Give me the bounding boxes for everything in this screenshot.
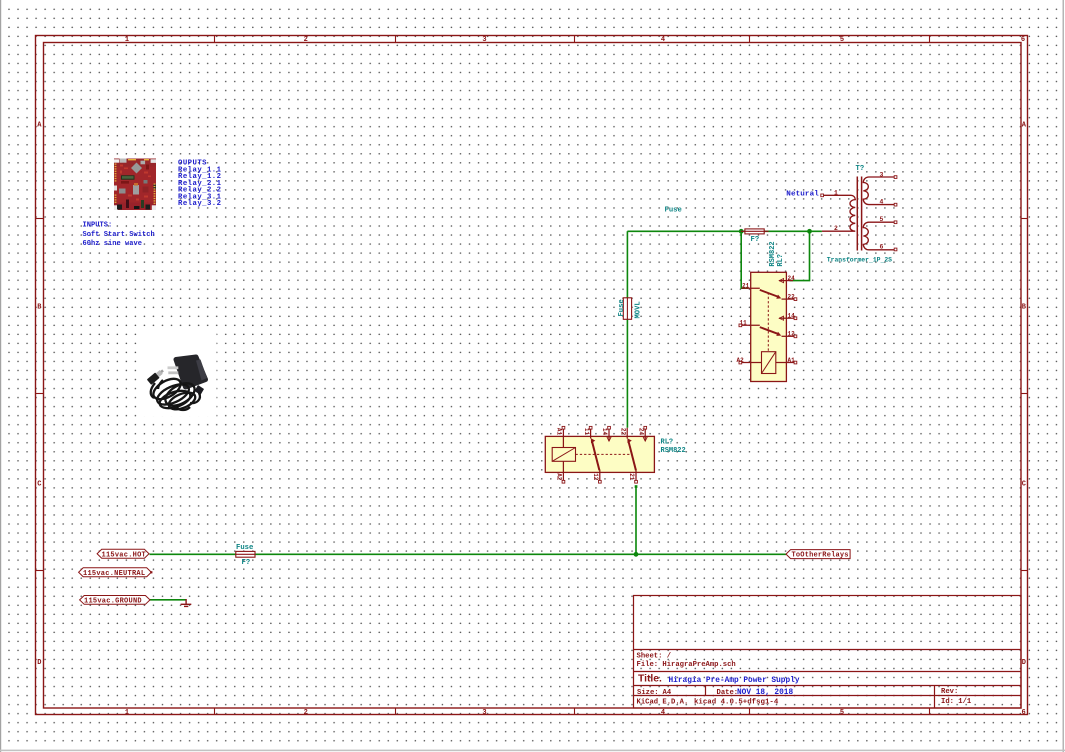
svg-text:Netural: Netural (786, 190, 819, 198)
open squares (739, 298, 797, 364)
wire to vertical relay pin 24 (790, 231, 810, 280)
svg-text:5: 5 (840, 709, 844, 717)
junction at 809,231 (807, 229, 812, 234)
fuse MOVL (vertical) (618, 298, 643, 320)
junction at 636,554 (634, 552, 639, 557)
svg-text:C: C (37, 481, 41, 489)
svg-text:Relay_3.2: Relay_3.2 (178, 200, 221, 208)
internal contact lines (779, 280, 786, 282)
secondary 1 winding (863, 177, 895, 205)
svg-text:T?: T? (856, 165, 865, 173)
svg-text:5: 5 (880, 216, 884, 223)
top stubs (562, 428, 564, 448)
svg-text:5: 5 (840, 36, 844, 44)
svg-text:6: 6 (1021, 709, 1025, 717)
svg-text:A1: A1 (788, 357, 796, 364)
svg-text:NOV 18, 2018: NOV 18, 2018 (737, 689, 793, 697)
pin numbers (737, 275, 796, 364)
svg-text:24: 24 (637, 428, 644, 436)
svg-text:22: 22 (619, 428, 626, 436)
svg-text:14: 14 (601, 428, 608, 436)
svg-text:Date:: Date: (717, 689, 739, 697)
svg-text:kicad 4.0.5+dfsg1-4: kicad 4.0.5+dfsg1-4 (694, 699, 779, 707)
contact arrows (779, 279, 783, 283)
svg-text:4: 4 (880, 199, 884, 206)
wire junction to relay pin 21 (635, 487, 637, 554)
svg-text:1: 1 (125, 36, 129, 44)
window edge right (1063, 0, 1064, 752)
contact arrows (607, 437, 611, 441)
blades (592, 441, 600, 471)
svg-text:A2: A2 (556, 473, 563, 481)
svg-text:Title.: Title. (638, 673, 662, 684)
wire relay pin 22 up (626, 231, 628, 427)
svg-text:115vac.GROUND: 115vac.GROUND (84, 598, 142, 606)
text note OUPUTS relay list (178, 160, 222, 208)
cable exit nub (195, 385, 205, 395)
svg-text:6: 6 (880, 243, 884, 250)
primary winding (822, 195, 855, 231)
svg-text:115vac.NEUTRAL: 115vac.NEUTRAL (83, 570, 145, 578)
svg-text:11: 11 (740, 320, 748, 327)
svg-text:4: 4 (661, 36, 665, 44)
global label 115vac.NEUTRAL (79, 568, 153, 578)
svg-text:12: 12 (592, 473, 599, 481)
svg-text:RL?: RL? (661, 439, 674, 447)
svg-text:1: 1 (834, 189, 838, 196)
window edge bottom (0, 750, 1065, 752)
svg-text:4: 4 (661, 709, 665, 717)
bottom stubs (562, 461, 564, 481)
svg-text:A2: A2 (737, 357, 745, 364)
blades (760, 290, 779, 297)
bitmap image: wall adapter photo (140, 333, 217, 417)
svg-text:1: 1 (125, 709, 129, 717)
global label ToOtherRelays (786, 550, 850, 560)
global label 115vac.GROUND (80, 596, 150, 606)
svg-text:ToOtherRelays: ToOtherRelays (792, 552, 849, 560)
svg-text:Transformer_1P_2S: Transformer_1P_2S (827, 256, 892, 263)
svg-text:2: 2 (304, 36, 308, 44)
svg-text:3: 3 (482, 36, 486, 44)
green pin-end square at relay pin 21 bottom (635, 485, 638, 488)
svg-text:3: 3 (880, 171, 884, 178)
secondary 2 winding (863, 222, 895, 250)
relay RL? RSM822 (horizontal) (545, 426, 685, 483)
svg-text:Soft Start Switch: Soft Start Switch (83, 231, 155, 239)
svg-text:KiCad E.D.A.: KiCad E.D.A. (637, 699, 689, 707)
svg-text:F?: F? (242, 559, 251, 567)
svg-text:Hiragia Pre-Amp Power Supply: Hiragia Pre-Amp Power Supply (669, 677, 800, 685)
coil (762, 352, 776, 374)
relay RL? RSM822 (vertical) (737, 241, 797, 381)
svg-text:115vac.HOT: 115vac.HOT (102, 551, 147, 559)
bitmap image: relay PCB photo (112, 157, 158, 213)
junction at 741,231 (739, 229, 744, 234)
svg-text:Size:: Size: (637, 689, 659, 697)
svg-text:A1: A1 (556, 428, 563, 436)
svg-text:RL?: RL? (777, 254, 785, 267)
svg-text:6: 6 (1021, 36, 1025, 44)
fuse F? (bottom) (236, 544, 255, 567)
svg-text:MOVL: MOVL (635, 301, 643, 318)
svg-text:2: 2 (834, 225, 838, 232)
transformer T? (821, 165, 897, 263)
wire 115vac.GROUND (150, 599, 187, 601)
barrel plug (147, 368, 166, 385)
svg-text:Id: 1/1: Id: 1/1 (941, 698, 972, 706)
left stubs (742, 287, 760, 289)
svg-text:Rev:: Rev: (941, 688, 958, 696)
pin numbers rotated (556, 428, 645, 481)
svg-text:21: 21 (628, 473, 635, 481)
svg-text:21: 21 (742, 283, 750, 290)
global label 115vac.HOT (97, 549, 149, 559)
fuse F? (top) (665, 207, 769, 245)
svg-text:D: D (1022, 659, 1026, 667)
dashed link (767, 293, 769, 352)
svg-text:RSM822: RSM822 (661, 447, 686, 455)
svg-text:D: D (37, 659, 41, 667)
adapter body (176, 357, 206, 387)
svg-text:24: 24 (788, 275, 796, 282)
ground symbol (181, 599, 192, 606)
right stubs (786, 280, 793, 282)
svg-text:C: C (1022, 481, 1026, 489)
svg-text:File: HiragraPreAmp.sch: File: HiragraPreAmp.sch (637, 661, 736, 669)
svg-text:INPUTS:: INPUTS: (83, 222, 113, 230)
svg-text:14: 14 (788, 313, 796, 320)
wire 115vac.HOT to ToOtherRelays (150, 553, 787, 555)
svg-text:Fuse: Fuse (618, 299, 626, 316)
svg-text:Fuse: Fuse (236, 544, 253, 552)
svg-text:2: 2 (304, 709, 308, 717)
text note INPUTS (83, 222, 155, 249)
wire to vertical relay pin 21 (741, 231, 748, 288)
coil (552, 448, 575, 462)
svg-text:F?: F? (751, 236, 760, 244)
open squares (562, 426, 647, 483)
svg-text:Fuse: Fuse (665, 207, 682, 215)
prongs (168, 366, 179, 369)
svg-text:A4: A4 (663, 689, 672, 697)
svg-text:3: 3 (482, 709, 486, 717)
svg-text:22: 22 (788, 293, 796, 300)
wire horizontal to transformer pin 2 (627, 230, 822, 232)
svg-text:RSM822: RSM822 (769, 241, 777, 266)
svg-text:60hz sine wave: 60hz sine wave (83, 240, 143, 248)
coiled cable (150, 375, 200, 413)
dashed link (576, 453, 633, 455)
svg-text:12: 12 (788, 331, 796, 338)
svg-text:Sheet: /: Sheet: / (637, 652, 672, 660)
svg-text:11: 11 (583, 428, 590, 436)
TITLE BLOCK (634, 596, 1022, 709)
window edge left (0, 0, 1, 752)
